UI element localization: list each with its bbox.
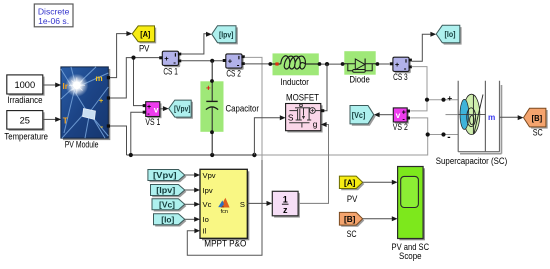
node after inductor / wire to diode xyxy=(321,62,341,66)
svg-text:Diode: Diode xyxy=(349,75,370,85)
wire from tag Vc to MPPT xyxy=(185,202,200,207)
wire CS1 - to CS2 + (junction to capacitor) xyxy=(181,59,223,63)
from tag [Io] xyxy=(154,214,187,227)
svg-text:1000: 1000 xyxy=(14,80,35,90)
goto tag [Vpv] xyxy=(169,100,193,119)
svg-text:v: v xyxy=(396,110,401,120)
wire MPPT S to unit delay xyxy=(247,201,272,206)
svg-text:[Io]: [Io] xyxy=(445,30,456,39)
from tag [A] xyxy=(339,176,364,204)
svg-text:-: - xyxy=(100,121,103,131)
goto tag [Vc] xyxy=(350,106,376,126)
svg-text:CS 1: CS 1 xyxy=(163,67,178,77)
svg-text:PV: PV xyxy=(139,44,150,54)
svg-text:+: + xyxy=(206,84,211,93)
svg-text:SC: SC xyxy=(533,128,544,138)
svg-text:-: - xyxy=(173,58,176,67)
wire CS3 i to goto [Io] xyxy=(412,32,437,62)
svg-text:Supercapacitor (SC): Supercapacitor (SC) xyxy=(436,156,507,166)
svg-text:m: m xyxy=(95,74,102,83)
svg-text:Vpv: Vpv xyxy=(203,171,216,180)
wire VS2 - to supercap - node and rail xyxy=(410,118,458,143)
inductor block xyxy=(268,53,321,87)
svg-text:Scope: Scope xyxy=(399,251,422,261)
svg-text:1: 1 xyxy=(283,195,288,205)
svg-text:[Ipv]: [Ipv] xyxy=(156,186,175,195)
unit delay 1/z xyxy=(272,191,300,217)
svg-text:Temperature: Temperature xyxy=(4,132,48,142)
wire node down to MOSFET drain xyxy=(323,64,327,111)
svg-text:Irradiance: Irradiance xyxy=(8,95,43,105)
svg-text:+: + xyxy=(395,60,400,69)
wire CS2 i down to MPPT Il (feedback) xyxy=(187,57,262,255)
svg-text:MPPT P&O: MPPT P&O xyxy=(204,238,246,248)
voltage sensor VS1 xyxy=(143,102,162,128)
goto tag [Io] xyxy=(436,25,461,44)
constant Irradiance (1000) xyxy=(7,75,45,105)
wire PV m to goto A xyxy=(110,31,132,78)
svg-text:VS 2: VS 2 xyxy=(393,122,408,132)
svg-text:fcn: fcn xyxy=(221,209,228,215)
current sensor CS3 xyxy=(390,57,412,82)
svg-text:PV Module: PV Module xyxy=(65,139,99,149)
svg-text:CS 3: CS 3 xyxy=(393,72,408,82)
svg-text:[A]: [A] xyxy=(344,178,356,187)
wire 1/z output up to MOSFET g xyxy=(298,122,328,203)
wire rail up to VS1 - xyxy=(131,112,144,155)
PV Module block xyxy=(61,67,110,149)
wire from tag Io to MPPT xyxy=(185,217,200,222)
wire from tag A to scope xyxy=(363,180,398,185)
wire Irradiance to PV Ir xyxy=(43,83,61,88)
svg-text:1e-06 s.: 1e-06 s. xyxy=(38,16,69,26)
svg-text:VS 1: VS 1 xyxy=(145,117,160,127)
svg-text:Inductor: Inductor xyxy=(280,77,309,87)
wire CS1 i to goto [Ipv] xyxy=(181,32,212,54)
wire CS2 - to inductor xyxy=(245,63,269,65)
from tag [Ipv] xyxy=(151,185,187,198)
svg-text:[Io]: [Io] xyxy=(161,215,174,224)
svg-text:Capacitor: Capacitor xyxy=(226,103,260,113)
from tag [B] xyxy=(339,212,364,239)
wire from tag Ipv to MPPT xyxy=(185,188,200,193)
svg-text:Ir: Ir xyxy=(63,82,69,91)
wire PV - down to ground rail xyxy=(110,126,127,155)
goto tag [Ipv] xyxy=(212,26,238,45)
svg-text:z: z xyxy=(283,205,288,215)
svg-text:SC: SC xyxy=(347,229,358,239)
from tag [Vc] xyxy=(152,199,186,212)
MOSFET block xyxy=(286,92,325,132)
svg-text:Vc: Vc xyxy=(203,200,212,209)
wire diode to CS3 xyxy=(379,63,390,65)
svg-text:T: T xyxy=(63,117,68,126)
from tag [Vpv] xyxy=(148,170,187,183)
svg-text:+: + xyxy=(447,93,452,103)
svg-text:[Vc]: [Vc] xyxy=(352,111,366,120)
wire supercap m to goto [B] xyxy=(500,115,524,120)
svg-text:+: + xyxy=(164,54,169,63)
capacitor block xyxy=(200,61,259,155)
goto tag [A] PV xyxy=(132,26,156,54)
svg-text:g: g xyxy=(313,119,318,129)
svg-text:Il: Il xyxy=(203,227,207,236)
wire from tag B to scope xyxy=(363,216,398,221)
svg-text:PV: PV xyxy=(347,194,358,204)
svg-text:m: m xyxy=(488,113,495,122)
MPPT P&O block xyxy=(200,169,249,248)
constant Temperature (25) xyxy=(4,111,48,142)
wire PV + to CS1 + (with branch to VS1 +) xyxy=(110,56,161,106)
voltage sensor VS2 xyxy=(393,108,410,132)
svg-text:S: S xyxy=(288,112,294,122)
wire VS1 v to goto [Vpv] xyxy=(160,106,169,111)
bottom ground rail xyxy=(127,135,428,158)
current sensor CS2 xyxy=(223,54,245,79)
wire from tag Vpv to MPPT xyxy=(185,173,200,178)
svg-text:[Ipv]: [Ipv] xyxy=(219,30,234,39)
wire VS2 v to goto [Vc] xyxy=(374,112,394,117)
svg-text:Io: Io xyxy=(203,215,209,224)
sample time annotation "Discrete 1e-06 s." xyxy=(34,4,73,27)
svg-text:[A]: [A] xyxy=(140,29,150,39)
supercapacitor block xyxy=(436,81,507,166)
svg-text:+: + xyxy=(228,57,233,66)
goto tag [B] SC xyxy=(524,108,548,137)
svg-text:MOSFET: MOSFET xyxy=(286,92,320,102)
diode block xyxy=(341,51,380,84)
svg-text:+: + xyxy=(99,96,104,105)
svg-text:[Vpv]: [Vpv] xyxy=(153,171,177,180)
svg-text:[Vpv]: [Vpv] xyxy=(174,105,191,114)
svg-text:CS 2: CS 2 xyxy=(226,69,241,79)
svg-text:-: - xyxy=(447,132,450,143)
svg-text:[B]: [B] xyxy=(344,215,356,224)
svg-text:25: 25 xyxy=(20,115,30,125)
wire Temperature to PV T xyxy=(43,117,61,122)
svg-text:Ipv: Ipv xyxy=(203,186,213,195)
svg-text:[B]: [B] xyxy=(532,113,543,123)
wire rail up to MOSFET S xyxy=(254,115,285,155)
wire CS3 - down to supercap + node / VS2 + xyxy=(410,67,458,111)
svg-text:[Vc]: [Vc] xyxy=(159,200,175,209)
svg-text:S: S xyxy=(240,200,245,209)
scope PV and SC Scope xyxy=(392,167,430,262)
current sensor CS1 xyxy=(159,51,181,76)
svg-text:v: v xyxy=(154,105,159,115)
